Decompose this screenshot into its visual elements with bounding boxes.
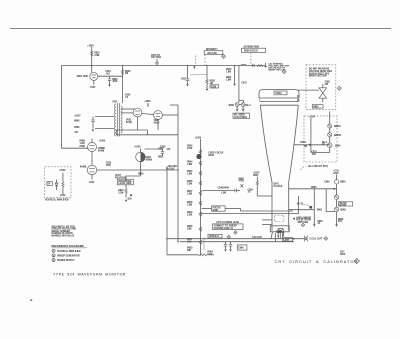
svg-text:R854: R854 bbox=[253, 174, 259, 177]
svg-text:DEFL: DEFL bbox=[274, 184, 280, 186]
svg-text:C846 R846: C846 R846 bbox=[218, 186, 230, 189]
tube V801 bbox=[90, 72, 98, 80]
svg-text:NE-23: NE-23 bbox=[297, 204, 304, 206]
connector CAL OUT jack bbox=[304, 236, 306, 242]
svg-text:27K: 27K bbox=[338, 221, 342, 223]
wire left bus into V808 row bbox=[62, 147, 89, 149]
svg-text:+100V: +100V bbox=[134, 147, 141, 149]
ground arrow bbox=[313, 224, 316, 227]
svg-text:+150V: +150V bbox=[87, 45, 94, 47]
svg-text:1.8M: 1.8M bbox=[226, 71, 231, 73]
wire main horizontal bus y=65.5 bbox=[62, 65, 240, 67]
wire heater bus B bbox=[180, 241, 294, 243]
svg-text:POWER SUPPLY: POWER SUPPLY bbox=[57, 260, 75, 262]
wire right chain bbox=[336, 184, 338, 195]
svg-text:+150V: +150V bbox=[168, 169, 175, 171]
svg-text:MARKED WITH BLUE: MARKED WITH BLUE bbox=[52, 235, 75, 238]
svg-text:R830: R830 bbox=[138, 174, 144, 176]
control bias box bbox=[312, 105, 323, 108]
svg-text:6AW8: 6AW8 bbox=[98, 150, 105, 153]
note ref item 3 bbox=[52, 259, 55, 262]
resistor R847 bbox=[199, 191, 201, 195]
symbol diamond D bbox=[301, 223, 304, 226]
svg-text:1.8M: 1.8M bbox=[226, 79, 231, 81]
wire lamp chain bottom bbox=[311, 148, 330, 153]
capacitor C804 pair bbox=[225, 242, 227, 245]
CRT neck right bbox=[288, 182, 290, 231]
diode CR810 bbox=[55, 183, 58, 186]
svg-text:VERTICAL AMPLIFIER: VERTICAL AMPLIFIER bbox=[45, 199, 69, 202]
wire deflection feed upper bbox=[241, 210, 294, 212]
tube V810 bbox=[87, 165, 97, 175]
svg-text:V822: V822 bbox=[126, 120, 132, 122]
resistor R842 bbox=[199, 150, 201, 154]
svg-text:MAINT SECTION: MAINT SECTION bbox=[309, 75, 327, 78]
svg-text:C819: C819 bbox=[211, 86, 217, 88]
svg-text:C832: C832 bbox=[158, 149, 164, 151]
ground bbox=[108, 85, 111, 87]
svg-text:T5030: T5030 bbox=[275, 93, 282, 95]
svg-text:R801 100K: R801 100K bbox=[77, 76, 89, 78]
symbol diamond C bbox=[337, 86, 341, 90]
svg-text:6AW8: 6AW8 bbox=[80, 166, 87, 169]
component box in dashed bbox=[47, 182, 52, 186]
wire cal feed bbox=[326, 189, 335, 212]
svg-text:6BW8: 6BW8 bbox=[146, 160, 153, 162]
resistor R820 bbox=[125, 188, 127, 194]
tube V822 bbox=[133, 108, 142, 117]
svg-text:C868: C868 bbox=[238, 247, 244, 249]
wire base pins down bbox=[277, 233, 279, 239]
amplifier dashed box (vert input) bbox=[45, 167, 72, 198]
wire right vertical x=122.6 bbox=[122, 66, 124, 104]
CRT type box bbox=[274, 91, 287, 95]
svg-text:.001: .001 bbox=[106, 73, 111, 75]
resistor R811 bbox=[62, 182, 64, 188]
svg-text:+100V: +100V bbox=[99, 141, 106, 143]
svg-text:6.3V HTR: 6.3V HTR bbox=[252, 237, 262, 239]
CRT base bbox=[270, 226, 289, 232]
symbol diamond F bbox=[234, 231, 237, 234]
svg-text:V834: V834 bbox=[146, 156, 152, 159]
svg-text:ASTIGMATISM: ASTIGMATISM bbox=[244, 45, 260, 48]
tube V834 bbox=[136, 152, 146, 162]
wire link bbox=[190, 74, 207, 76]
svg-text:.005: .005 bbox=[311, 154, 316, 156]
note ref item 1 bbox=[52, 249, 55, 252]
wire focus to CRT bbox=[225, 208, 240, 210]
lamp B869 bbox=[329, 137, 331, 143]
tube astig blob bbox=[196, 154, 201, 159]
wire grid lead bbox=[289, 209, 315, 211]
svg-text:10M: 10M bbox=[187, 229, 191, 231]
resistor R846 bbox=[199, 181, 201, 185]
svg-text:R806: R806 bbox=[74, 121, 80, 123]
page mark bottom left bbox=[30, 300, 32, 301]
svg-text:1500: 1500 bbox=[106, 165, 112, 167]
svg-text:REFERENCE DIAGRAMS: REFERENCE DIAGRAMS bbox=[52, 244, 85, 248]
node base junction bbox=[277, 235, 279, 237]
svg-text:V808B: V808B bbox=[98, 148, 105, 150]
svg-text:B860: B860 bbox=[340, 182, 346, 184]
symbol diamond G bbox=[227, 235, 230, 238]
svg-text:CRT CIRCUIT & CALIBRATOR: CRT CIRCUIT & CALIBRATOR bbox=[275, 259, 359, 264]
svg-text:3.3M: 3.3M bbox=[94, 55, 99, 57]
resistor R844 bbox=[199, 161, 201, 165]
svg-text:V832: V832 bbox=[154, 120, 160, 122]
svg-text:R817 2M: R817 2M bbox=[208, 53, 217, 55]
capacitor mesh dashed bbox=[275, 215, 284, 221]
svg-text:R848: R848 bbox=[213, 209, 219, 212]
capacitor C806 bbox=[91, 119, 95, 121]
svg-text:2.2M: 2.2M bbox=[187, 184, 192, 186]
node junction dots bbox=[91, 65, 93, 67]
lamp B839A bbox=[235, 103, 239, 107]
symbol diamond title bbox=[354, 258, 359, 263]
ground bbox=[233, 84, 236, 86]
wire dashed pot links bbox=[194, 56, 196, 66]
tube V832 bbox=[154, 111, 163, 120]
control FOCUS ADJ box bbox=[202, 208, 212, 210]
svg-text:(ALL ON CRT SKT): (ALL ON CRT SKT) bbox=[308, 165, 328, 168]
svg-text:+150V: +150V bbox=[309, 116, 316, 118]
wire HV drop bbox=[238, 66, 240, 103]
component box below bus bbox=[237, 245, 247, 250]
svg-text:.047: .047 bbox=[74, 131, 79, 134]
wire feedback loop rectangle bbox=[116, 129, 147, 131]
tube V808B bbox=[88, 143, 97, 152]
wire deflection feed lower bbox=[202, 213, 299, 215]
svg-text:6AQ5: 6AQ5 bbox=[126, 121, 133, 124]
svg-text:-150V: -150V bbox=[89, 182, 95, 184]
wire anode to junction bbox=[294, 144, 330, 146]
svg-text:R835: R835 bbox=[158, 157, 164, 159]
wire x=167 branch bbox=[166, 166, 168, 255]
ground bbox=[206, 89, 209, 91]
wire primary left bbox=[95, 116, 114, 118]
svg-text:2.2M: 2.2M bbox=[187, 215, 192, 217]
svg-text:R843: R843 bbox=[209, 154, 215, 157]
capacitor C846 feed bbox=[202, 190, 235, 192]
symbol diamond B bbox=[282, 70, 286, 74]
wire HV feed junctions bbox=[234, 66, 236, 84]
svg-text:R861: R861 bbox=[317, 209, 323, 211]
resistor R851 bbox=[199, 240, 201, 244]
wire V810 plate row bbox=[97, 169, 178, 171]
wire left drop bbox=[298, 196, 300, 214]
svg-text:-150V: -150V bbox=[90, 87, 96, 89]
svg-text:1.2M: 1.2M bbox=[80, 143, 85, 145]
svg-text:TEST POINT: TEST POINT bbox=[234, 117, 248, 119]
calibrator dashed box bbox=[304, 116, 337, 162]
svg-text:B867A: B867A bbox=[334, 125, 341, 128]
svg-text:2: 2 bbox=[53, 255, 54, 257]
wire bus extension bbox=[240, 65, 266, 67]
capacitor C836 bbox=[145, 148, 163, 150]
wire V808 to V810 bbox=[91, 152, 93, 166]
wire bbox=[336, 199, 338, 207]
control HUM BAL box bbox=[208, 234, 222, 238]
svg-text:1: 1 bbox=[53, 251, 54, 253]
resistor R821 bbox=[241, 63, 246, 65]
symbol diamond E bbox=[324, 237, 328, 241]
wire drop to ground bbox=[313, 189, 315, 224]
resistor R803 bbox=[122, 69, 124, 75]
svg-text:PLATES: PLATES bbox=[274, 185, 283, 188]
wire transformer to tubes bbox=[121, 108, 135, 110]
HV rectifier dashed box bbox=[306, 65, 336, 110]
svg-text:56K: 56K bbox=[187, 250, 191, 252]
wire V810 cathode down bbox=[91, 175, 93, 180]
svg-text:LEVEL R819: LEVEL R819 bbox=[118, 183, 132, 185]
wire into neck grid bbox=[257, 195, 272, 197]
wiper arrow R817 bbox=[193, 66, 195, 69]
CRT funnel right bbox=[289, 105, 299, 182]
resistor R801 bbox=[91, 51, 93, 57]
connector B862 bbox=[334, 207, 338, 211]
svg-text:C808: C808 bbox=[80, 146, 86, 148]
svg-text:1.5M: 1.5M bbox=[221, 193, 226, 195]
node junction bbox=[130, 194, 132, 196]
svg-text:+225V: +225V bbox=[74, 116, 81, 118]
wire jog to level pot bbox=[126, 176, 141, 181]
svg-text:C806: C806 bbox=[74, 127, 80, 129]
svg-text:C841: C841 bbox=[241, 82, 247, 85]
wire left vertical bus bbox=[61, 66, 63, 149]
wire V801 cathode bbox=[93, 80, 95, 84]
svg-text:B862: B862 bbox=[341, 209, 347, 211]
ground arrow bbox=[335, 224, 338, 227]
capacitor C821 bbox=[252, 64, 254, 67]
connector B861 bbox=[334, 195, 338, 199]
wire lower left link bbox=[167, 254, 199, 256]
wire heater bus A bbox=[167, 238, 304, 240]
svg-text:R859: R859 bbox=[311, 187, 317, 189]
resistor R804 bbox=[199, 254, 207, 256]
resistor R855 bbox=[256, 181, 258, 186]
svg-text:1.8M: 1.8M bbox=[187, 194, 192, 196]
node junction dot bbox=[309, 144, 311, 146]
wire V801 plate to grid bus bbox=[98, 75, 123, 77]
ground bbox=[186, 84, 189, 86]
lamp B867B bbox=[329, 128, 331, 133]
svg-text:R808: R808 bbox=[80, 141, 86, 143]
capacitor C817 drop bbox=[187, 66, 189, 79]
svg-text:VERTICAL AMPLIFIER: VERTICAL AMPLIFIER bbox=[57, 250, 81, 253]
svg-text:CHASSIS C849 .01: CHASSIS C849 .01 bbox=[214, 227, 234, 230]
svg-text:ROTAT: ROTAT bbox=[339, 204, 347, 207]
wire chain to ground bbox=[336, 212, 338, 225]
resistor R849 bbox=[199, 212, 201, 216]
wire arrowhead into neck bbox=[292, 218, 295, 220]
wire V834 cathode down bbox=[140, 162, 142, 176]
symbol crossing bbox=[240, 184, 243, 187]
wire HV divider chain bbox=[200, 139, 202, 250]
svg-text:CRT PIN1: CRT PIN1 bbox=[151, 57, 162, 59]
component box on bus bbox=[283, 238, 293, 241]
svg-text:470K: 470K bbox=[239, 180, 245, 183]
svg-text:470K: 470K bbox=[187, 147, 193, 150]
wire leader to lamp bbox=[303, 205, 310, 207]
ground bbox=[125, 200, 128, 202]
symbol diamond A bbox=[222, 54, 226, 58]
note ref item 2 bbox=[52, 254, 55, 257]
CRT neck left bbox=[271, 182, 273, 231]
control trace rotation box bbox=[338, 202, 352, 206]
wire mid vertical bus x=178 bbox=[177, 105, 179, 242]
wire right feed vertical bbox=[310, 118, 312, 152]
wire anode lead bbox=[298, 89, 320, 91]
wire +150V drop bbox=[91, 47, 93, 73]
svg-text:HUM BAL: HUM BAL bbox=[209, 235, 220, 238]
wire pot to R820 bbox=[125, 185, 127, 189]
svg-text:-150V: -150V bbox=[60, 195, 66, 197]
svg-text:+150V: +150V bbox=[59, 170, 66, 172]
svg-text:1.8M: 1.8M bbox=[187, 174, 192, 176]
lamp B839B bbox=[241, 103, 245, 107]
resistor R850 bbox=[199, 227, 201, 231]
resistor R845 bbox=[199, 171, 201, 175]
rectifier bowtie V862 bbox=[319, 88, 327, 93]
CRT base key bbox=[277, 229, 284, 233]
CRT bell rings bbox=[260, 100, 299, 102]
svg-text:R852: R852 bbox=[301, 142, 307, 144]
capacitor C867 bbox=[275, 233, 277, 242]
connector J860 bbox=[334, 180, 338, 184]
svg-text:2.2M: 2.2M bbox=[118, 192, 123, 194]
wire lamps to HV box bbox=[236, 107, 238, 110]
lamp B867A bbox=[329, 112, 331, 125]
CRT funnel left bbox=[260, 105, 272, 182]
svg-text:R826 FOCUS: R826 FOCUS bbox=[244, 51, 258, 53]
svg-text:1M: 1M bbox=[125, 73, 128, 75]
svg-text:C866: C866 bbox=[276, 232, 282, 234]
svg-text:C869: C869 bbox=[283, 239, 289, 241]
CRT faceplate bbox=[259, 90, 299, 98]
node junction bbox=[293, 238, 295, 240]
ground bbox=[92, 130, 95, 132]
svg-text:C860: C860 bbox=[324, 182, 330, 184]
svg-text:100V: 100V bbox=[333, 173, 339, 175]
svg-text:2 CAL OUT: 2 CAL OUT bbox=[309, 238, 322, 241]
top page border line bbox=[10, 28, 391, 30]
svg-text:6AQ5: 6AQ5 bbox=[154, 122, 161, 125]
resistor R848 bbox=[199, 201, 201, 205]
svg-text:B867B: B867B bbox=[334, 135, 341, 137]
svg-text:1.8M: 1.8M bbox=[187, 164, 192, 166]
svg-text:R860: R860 bbox=[313, 107, 319, 109]
svg-text:3: 3 bbox=[53, 260, 54, 262]
svg-text:B869: B869 bbox=[335, 145, 341, 147]
svg-text:NE-2: NE-2 bbox=[245, 105, 251, 107]
svg-text:466A: 466A bbox=[340, 253, 346, 256]
svg-text:SWEEP GENERATOR: SWEEP GENERATOR bbox=[57, 254, 80, 257]
resistor R822 bbox=[257, 65, 264, 67]
control HV ADJ box bbox=[233, 113, 250, 118]
svg-text:470K: 470K bbox=[112, 80, 118, 83]
resistor R818 drop bbox=[206, 66, 208, 80]
wire neck to right bus bbox=[289, 188, 337, 190]
svg-text:1.8M: 1.8M bbox=[187, 205, 192, 207]
svg-text:B839: B839 bbox=[229, 105, 235, 107]
svg-text:1M: 1M bbox=[304, 146, 307, 148]
lamp NE-23 dot bbox=[309, 206, 312, 209]
svg-text:TYPE 524 WAVEFORM MONITOR: TYPE 524 WAVEFORM MONITOR bbox=[53, 273, 126, 277]
